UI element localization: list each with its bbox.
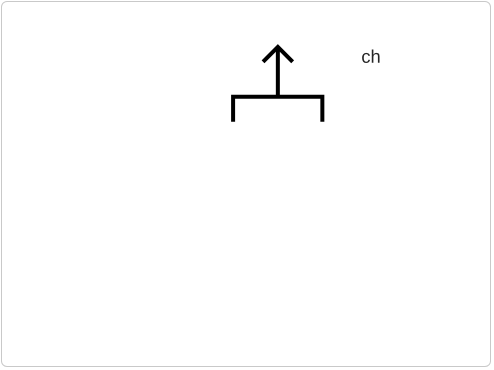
bracket: bar with two legs	[233, 97, 322, 122]
chassis symbol	[233, 47, 322, 122]
wire: vertical lead (shaft)	[276, 47, 280, 97]
label ch (chassis net name)	[362, 49, 379, 63]
arrowhead (open chevron)	[263, 47, 293, 62]
